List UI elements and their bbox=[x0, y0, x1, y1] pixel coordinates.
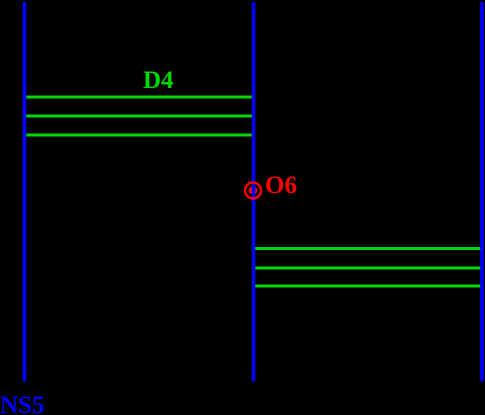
svg-text:D4: D4 bbox=[143, 67, 174, 94]
svg-text:NS5: NS5 bbox=[0, 392, 44, 415]
svg-text:O6: O6 bbox=[265, 172, 297, 199]
